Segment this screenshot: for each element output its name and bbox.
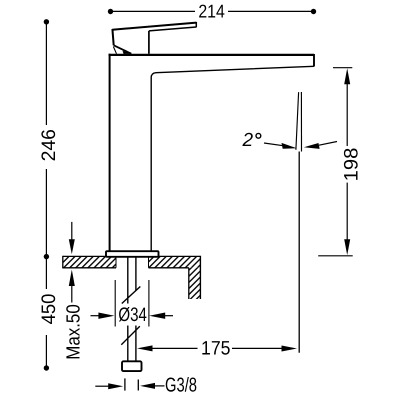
2 degree label degree circle	[256, 133, 261, 138]
shank break slash lower	[121, 326, 140, 345]
faucet supply shank right line lower	[135, 326, 137, 362]
diameter 34 right extension line	[148, 280, 150, 327]
handle top edge	[112, 23, 196, 30]
2 degree left arrowhead	[282, 143, 297, 149]
faucet spout top edge	[109, 54, 315, 56]
svg-text:175: 175	[201, 337, 231, 359]
countertop top edge	[63, 255, 201, 257]
G3/8 right arrow	[140, 383, 165, 389]
G3/8 left arrow	[95, 383, 123, 389]
water stream tilted line	[296, 92, 299, 150]
Max.50 down arrowhead	[69, 239, 75, 254]
dimension 246 line lower segment	[45, 169, 47, 256]
countertop hole left edge	[115, 256, 117, 267]
dimension 175 line right segment	[232, 347, 284, 349]
shank break slash upper	[122, 287, 141, 304]
handle right edge	[148, 31, 150, 54]
faucet base plate	[106, 251, 159, 257]
dimension 198 down arrowhead	[344, 239, 350, 255]
dimension 214 left dot	[108, 9, 113, 14]
2 degree right leader line	[319, 142, 337, 146]
svg-text:246: 246	[38, 129, 60, 161]
faucet supply shank right line upper	[135, 257, 137, 291]
dimension 450 bottom dot	[44, 365, 49, 370]
Max.50 up arrowhead	[69, 270, 75, 287]
faucet body left edge	[109, 54, 111, 252]
svg-text:2: 2	[242, 130, 254, 151]
svg-text:450: 450	[38, 293, 60, 324]
water stream vertical line lower	[298, 152, 300, 353]
handle bottom slant edge	[114, 45, 132, 53]
handle left edge	[112, 29, 113, 45]
countertop bottom edge right of hole	[149, 267, 189, 269]
dimension 198 line lower segment	[346, 183, 348, 241]
countertop slab left hatched section	[63, 256, 201, 299]
diameter 34 left extension line	[114, 280, 116, 327]
svg-text:198: 198	[340, 148, 362, 182]
dimension 175 line left segment	[150, 347, 198, 349]
2 degree left leader line	[264, 143, 284, 146]
dimension 450 line lower segment	[45, 335, 47, 368]
countertop front outer edge	[199, 256, 201, 299]
dimension 198 line upper segment	[346, 82, 348, 146]
handle lever bottom edge	[149, 27, 196, 31]
G3/8 right tick	[137, 380, 139, 391]
dimension 214 line right segment	[228, 10, 314, 12]
handle inner gap line	[113, 47, 116, 54]
dimension 198 bottom tick	[318, 255, 353, 257]
handle gap wedge	[123, 51, 132, 54]
dimension 450 line upper segment	[45, 256, 47, 289]
countertop hole right edge	[148, 256, 150, 267]
faucet spout tip edge	[313, 54, 315, 67]
Max.50 dimension lower line	[71, 284, 73, 303]
svg-text:G3/8: G3/8	[165, 375, 197, 397]
dimension 246 chain top dot	[44, 19, 49, 24]
G3/8 left tick	[124, 378, 126, 390]
countertop left end edge	[62, 256, 64, 269]
faucet spout underside and column inner edge	[151, 66, 314, 251]
dimension 175 right arrowhead	[282, 346, 298, 352]
dimension 198 up arrowhead	[344, 68, 350, 84]
water stream vertical reference line upper	[300, 92, 302, 152]
countertop front inner edge	[188, 268, 190, 299]
G3/8 connector cap	[122, 361, 142, 371]
Max.50 dimension upper line	[71, 222, 73, 241]
svg-text:214: 214	[198, 1, 225, 22]
faucet supply shank left line upper	[127, 257, 129, 304]
diameter 34 left arrow	[91, 313, 115, 319]
dimension 246 line	[45, 22, 47, 125]
dimension chain middle dot	[44, 254, 49, 259]
dimension 214 right dot	[311, 9, 316, 14]
dimension 198 top tick	[333, 67, 352, 69]
faucet supply shank left line lower	[127, 326, 129, 362]
2 degree right arrowhead	[304, 143, 320, 149]
dimension 214 line left segment	[111, 10, 196, 12]
svg-text:Ø34: Ø34	[118, 304, 147, 326]
svg-text:Max.50: Max.50	[63, 304, 84, 360]
countertop bottom edge left of hole	[63, 267, 116, 269]
handle lever tip edge	[195, 22, 197, 27]
dimension 175 left arrowhead	[137, 345, 153, 351]
diameter 34 right arrow	[149, 313, 173, 319]
